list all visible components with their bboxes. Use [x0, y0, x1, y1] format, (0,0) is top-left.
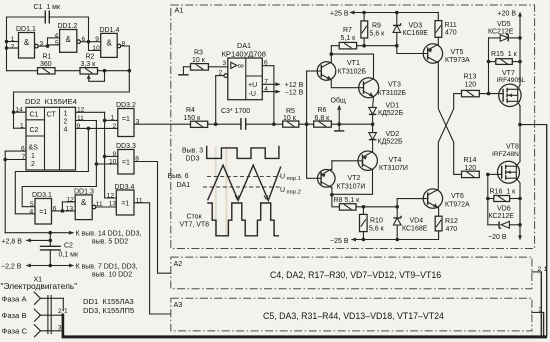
- junction VD5: [518, 36, 522, 40]
- svg-text:360: 360: [40, 61, 52, 68]
- svg-text:пор.2: пор.2: [287, 190, 301, 196]
- svg-text:10: 10: [92, 45, 100, 52]
- zener VD6: [499, 221, 509, 228]
- svg-text:КТ972А: КТ972А: [445, 201, 470, 208]
- wire DD1.4 pin10: [89, 42, 101, 51]
- wire DD3.2 out to R4: [134, 123, 191, 125]
- wire VT4 collector: [332, 170, 373, 195]
- logic gate DD1.2: [60, 30, 81, 53]
- svg-text:С3* 1700: С3* 1700: [221, 108, 250, 115]
- wire DD2 out 9 to DD3.2 pin2: [76, 127, 118, 129]
- wire phase A down: [62, 298, 64, 310]
- wire R15 left: [489, 61, 496, 63]
- wire R6 to diode node: [331, 123, 372, 125]
- junction output node: [518, 123, 522, 127]
- svg-text:1: 1: [20, 123, 24, 130]
- svg-text:&: &: [81, 198, 87, 207]
- svg-text:VT7: VT7: [502, 70, 515, 77]
- junction pin9 branch: [87, 127, 91, 131]
- svg-text:0,1 мк: 0,1 мк: [59, 252, 79, 259]
- wire VD6 left: [488, 224, 499, 226]
- svg-text:VT5: VT5: [451, 49, 464, 56]
- svg-text:−20 В: −20 В: [488, 234, 507, 241]
- ground R3: [178, 67, 189, 75]
- svg-text:КС168Е: КС168Е: [403, 30, 429, 37]
- junction R8-R10: [362, 205, 366, 209]
- svg-text:C4, DA2, R17–R30, VD7–VD12, VT: C4, DA2, R17–R30, VD7–VD12, VT9–VT16: [270, 270, 441, 280]
- waveform drain VT7 VT8: [207, 203, 279, 236]
- wire VD5 left vertical: [488, 38, 490, 94]
- svg-text:3: 3: [223, 60, 227, 67]
- wire phase A: [41, 297, 64, 299]
- svg-text:C1 1 мк: C1 1 мк: [34, 4, 61, 11]
- connector X1 contact A: [34, 292, 40, 304]
- junction to DD3.3 pin9: [103, 155, 107, 159]
- resistor R4: [191, 121, 208, 127]
- svg-text:КТ3102Б: КТ3102Б: [338, 69, 367, 76]
- wire R13 to VT6 collector (cross): [438, 94, 461, 190]
- svg-text:IRFZ48N: IRFZ48N: [492, 151, 519, 158]
- svg-text:4: 4: [30, 208, 34, 215]
- svg-text:R6: R6: [318, 107, 327, 114]
- wire DD2 pin6: [5, 150, 26, 152]
- wire VT4 base: [332, 160, 362, 162]
- svg-text:1: 1: [111, 115, 115, 122]
- svg-text:470: 470: [446, 226, 458, 233]
- svg-text:VT7, VT8: VT7, VT8: [180, 221, 210, 228]
- svg-text:выв. 10 DD2: выв. 10 DD2: [92, 272, 132, 279]
- wire VD4 bottom: [396, 225, 398, 240]
- wire VD2 to VT4 emitter: [372, 140, 374, 152]
- svg-text:К выв. 14 DD1, DD3,: К выв. 14 DD1, DD3,: [76, 231, 142, 238]
- svg-text:DD1.2: DD1.2: [58, 23, 78, 30]
- svg-text:VD6: VD6: [497, 206, 511, 213]
- wire osc output to DD2 clock: [14, 71, 130, 129]
- svg-text:CT: CT: [47, 112, 57, 119]
- svg-text:R15 1 к: R15 1 к: [491, 51, 518, 58]
- wire R8 node to VT6 base: [364, 206, 398, 208]
- resistor R11: [435, 21, 442, 38]
- wire DD1.1 pin2: [7, 47, 19, 49]
- svg-text:R14: R14: [464, 157, 477, 164]
- junction R10 rail: [362, 238, 366, 242]
- wire left rail: [6, 17, 8, 71]
- junction VD6 right: [518, 223, 522, 227]
- resistor R10: [360, 214, 368, 231]
- wire pin2 to R4-C3 node: [215, 76, 217, 125]
- junction inverting input node: [214, 122, 218, 126]
- connector X1 body bars: [48, 296, 51, 334]
- svg-text:+25 В: +25 В: [330, 11, 349, 18]
- wire DD1.4 output pin8: [121, 46, 130, 71]
- wire A3 output stub: [532, 311, 544, 313]
- svg-text:КС212Е: КС212Е: [489, 213, 515, 220]
- svg-text:R1: R1: [43, 54, 52, 61]
- svg-text:VT3: VT3: [388, 82, 401, 89]
- svg-text:3,3 к: 3,3 к: [81, 61, 97, 68]
- wire C2 bottom: [49, 250, 51, 266]
- wire R9 bottom: [363, 38, 365, 46]
- resistor R9: [361, 21, 368, 38]
- svg-text:R11: R11: [445, 22, 457, 29]
- wire VT2 collector to R8: [331, 187, 339, 207]
- wire thick bundle bottom: [62, 335, 547, 338]
- junction DD2 pin14: [12, 110, 16, 114]
- zener VD4: [393, 216, 401, 225]
- svg-text:5,6 к: 5,6 к: [370, 31, 386, 38]
- wire R5 to R6: [299, 123, 314, 125]
- wire DD2 pin14: [14, 111, 27, 113]
- wire -25V rail: [352, 231, 439, 240]
- svg-text:∞: ∞: [238, 61, 244, 71]
- wire thick bundle vertical: [62, 314, 65, 337]
- junction gate node: [487, 92, 491, 96]
- junction pin8 to R rail: [128, 69, 132, 73]
- svg-text:+U: +U: [248, 82, 257, 89]
- svg-text:13: 13: [66, 205, 74, 212]
- svg-text:=1: =1: [39, 209, 47, 216]
- ground common: [334, 124, 344, 131]
- svg-text:4: 4: [64, 127, 68, 134]
- svg-text:6: 6: [21, 145, 25, 152]
- svg-text:U: U: [280, 173, 285, 180]
- junction pin3 node: [46, 44, 50, 48]
- wire -12V supply: [262, 91, 279, 93]
- wire R1 to R2: [55, 70, 80, 72]
- wire VT6 base node vertical: [396, 199, 398, 218]
- svg-text:КТ3107И: КТ3107И: [379, 165, 408, 172]
- wire DD3.2 pin1: [105, 119, 118, 121]
- svg-text:VT6: VT6: [451, 193, 464, 200]
- wire 2 vertical: [540, 272, 542, 337]
- junction VD3-R7: [395, 44, 399, 48]
- wire +2.8V distribution: [5, 232, 73, 234]
- block A3 border: [171, 298, 532, 331]
- wire DD2 out 12: [76, 111, 105, 113]
- capacitor C1: [45, 11, 49, 24]
- variable resistor R2: [80, 68, 98, 74]
- svg-text:2: 2: [113, 123, 117, 130]
- svg-text:+12 В: +12 В: [285, 82, 304, 89]
- wire to VT5 base: [397, 46, 428, 54]
- wire VD6 right: [509, 224, 520, 226]
- junction pin1 rail: [5, 40, 9, 44]
- wire R3 to pin3: [208, 66, 227, 68]
- wire rail to R1: [7, 70, 38, 72]
- capacitor C2: [40, 246, 61, 250]
- svg-text:DD2 К155ИЕ4: DD2 К155ИЕ4: [25, 97, 78, 106]
- threshold dashed line Upor1: [207, 176, 280, 178]
- svg-text:2: 2: [64, 119, 68, 126]
- wire VT6 base: [397, 198, 428, 200]
- wire VD1 to VD2: [372, 114, 374, 132]
- diode VD1: [369, 107, 377, 114]
- wire R7 to VD3 node: [357, 45, 397, 47]
- svg-text:DD3, К155ЛП5: DD3, К155ЛП5: [83, 306, 134, 315]
- wire VT1 collector: [330, 54, 332, 62]
- svg-text:DD3.2: DD3.2: [116, 102, 136, 109]
- svg-text:DD1.4: DD1.4: [100, 27, 120, 34]
- wire VD5 anode: [489, 37, 501, 39]
- svg-text:C2: C2: [30, 127, 39, 134]
- resistor R7: [339, 42, 356, 49]
- resistor R15: [496, 59, 513, 65]
- svg-text:DD1.3: DD1.3: [74, 189, 94, 196]
- wire bus pin11 vertical: [22, 121, 96, 207]
- svg-text:КР140УД708: КР140УД708: [222, 49, 266, 58]
- svg-text:2: 2: [58, 308, 62, 315]
- junction -2.2 node: [49, 264, 53, 268]
- wire VT8 gate: [488, 173, 502, 175]
- transistor VT1: [317, 62, 336, 81]
- waveform square DD3 pin3: [207, 146, 279, 159]
- xor gate DD3.1: [35, 199, 52, 225]
- wire DD3.3 pin10: [96, 163, 117, 165]
- junction pin6 node: [87, 40, 91, 44]
- junction R15 right: [518, 60, 522, 64]
- wire to C2: [49, 233, 51, 247]
- wire C3 to R5: [246, 123, 283, 125]
- svg-text:К выв. 7 DD1, DD3,: К выв. 7 DD1, DD3,: [76, 263, 138, 270]
- resistor R1: [38, 68, 56, 74]
- wire DD3.3 pin9: [105, 155, 118, 157]
- junction R16 right: [518, 197, 522, 201]
- svg-text:КТ973А: КТ973А: [445, 57, 470, 64]
- svg-text:R8 5,1 к: R8 5,1 к: [334, 197, 361, 204]
- op-amp DA1: [224, 58, 262, 100]
- svg-text:=1: =1: [122, 160, 130, 167]
- wire C1 left: [7, 16, 46, 18]
- wire pin6 output: [262, 66, 274, 125]
- wire bus pin12 vertical: [105, 112, 117, 198]
- wire R7 left to collectors: [330, 46, 332, 54]
- wire VD3 bottom: [396, 32, 398, 45]
- svg-text:пор.1: пор.1: [287, 176, 301, 182]
- svg-text:10 к: 10 к: [283, 115, 297, 122]
- wire DD1.1 pin1: [7, 41, 19, 43]
- threshold dashed line Upor2: [203, 186, 280, 188]
- wire VT6 emitter to R12: [438, 208, 440, 217]
- svg-text:&: &: [66, 35, 72, 44]
- wire phase C: [41, 330, 64, 332]
- wire VT7 drain down: [518, 101, 520, 106]
- wire 1 vertical: [546, 125, 548, 337]
- svg-text:R4: R4: [186, 107, 195, 114]
- svg-text:VT8: VT8: [506, 144, 519, 151]
- wire pin2: [216, 75, 224, 77]
- wire C1 right to DD1.4 inputs: [49, 17, 88, 42]
- junction VD3 top: [395, 11, 399, 15]
- wire R10 top: [362, 207, 364, 215]
- wire R10 bottom: [362, 232, 364, 240]
- transistor VT6: [423, 189, 442, 208]
- svg-text:А1: А1: [175, 6, 184, 15]
- wire A2 output stub: [532, 271, 541, 273]
- svg-text:А3: А3: [174, 300, 183, 309]
- wire R4 to C3: [208, 123, 241, 125]
- resistor R8: [339, 204, 356, 210]
- junction R9 bottom: [362, 44, 366, 48]
- svg-text:VT1: VT1: [347, 60, 360, 67]
- svg-text:"Электродвигатель": "Электродвигатель": [1, 281, 78, 291]
- junction +2.8 node: [49, 231, 53, 235]
- svg-text:&: &: [106, 39, 112, 48]
- wire DD1.4 pin9: [89, 41, 101, 43]
- nand gate DD1.3: [75, 195, 96, 220]
- svg-text:VT2: VT2: [348, 175, 361, 182]
- svg-text:1: 1: [31, 153, 35, 160]
- svg-text:R5: R5: [286, 108, 295, 115]
- svg-text:9: 9: [95, 36, 99, 43]
- svg-text:6,8 к: 6,8 к: [315, 115, 331, 122]
- junction C2 top: [49, 239, 53, 243]
- resistor R6: [314, 121, 332, 127]
- marker arrow 1: [235, 196, 239, 200]
- junction DD3.1 out: [61, 209, 65, 213]
- junction Obshch: [337, 122, 341, 126]
- junction R15 left: [487, 60, 491, 64]
- R2 wiper arrow: [87, 71, 105, 82]
- wire R16 left: [488, 198, 494, 200]
- wire DD1.2 pin4: [48, 37, 60, 39]
- svg-text:7: 7: [22, 154, 26, 161]
- svg-text:R10: R10: [370, 218, 383, 225]
- wire comparator input vertical: [306, 71, 308, 178]
- svg-text:4: 4: [55, 32, 59, 39]
- wire R8 right: [356, 206, 364, 208]
- svg-text:−2,2 В: −2,2 В: [1, 263, 22, 270]
- svg-text:1: 1: [64, 111, 68, 118]
- svg-text:2: 2: [11, 43, 15, 50]
- svg-text:120: 120: [465, 165, 477, 172]
- transistor VT3: [359, 78, 379, 98]
- wire R13 to gate: [479, 93, 488, 95]
- junction to DD3.2 pin1: [103, 119, 107, 123]
- wire R11 top: [437, 13, 439, 21]
- wire VT4 emitter join: [372, 150, 374, 153]
- wire +20 rail down: [519, 38, 521, 85]
- resistor R13: [462, 90, 480, 96]
- svg-text:VD4: VD4: [410, 218, 424, 225]
- svg-text:12: 12: [67, 196, 75, 203]
- svg-text:1: 1: [11, 36, 15, 43]
- svg-text:5,1 к: 5,1 к: [341, 35, 357, 42]
- marker arrow 2: [264, 196, 268, 200]
- junction VT6 base node: [395, 205, 399, 209]
- svg-text:R9: R9: [372, 23, 381, 30]
- svg-text:DD3.1: DD3.1: [32, 192, 52, 199]
- wire DD2 out 11: [76, 120, 97, 122]
- svg-text:Выв. 6: Выв. 6: [168, 173, 189, 180]
- xor gate DD3.4: [116, 190, 134, 215]
- svg-text:−12 В: −12 В: [285, 90, 304, 97]
- wire +12V supply: [262, 83, 279, 85]
- svg-text:U: U: [280, 187, 285, 194]
- svg-text:А2: А2: [174, 259, 183, 268]
- junction VT2-VT4 collectors: [330, 193, 334, 197]
- wire VD5 cathode: [508, 37, 520, 39]
- svg-text:КТ3107И: КТ3107И: [337, 183, 366, 190]
- wire +2.8V label arrow: [27, 239, 51, 241]
- wire VT2 base: [307, 177, 321, 179]
- transistor VT5: [423, 44, 442, 63]
- svg-text:470: 470: [445, 30, 457, 37]
- svg-text:R7: R7: [343, 27, 352, 34]
- resistor R3: [191, 64, 209, 71]
- svg-text:120: 120: [465, 82, 477, 89]
- svg-text:Выв. 3: Выв. 3: [182, 148, 203, 155]
- svg-text:R3: R3: [194, 50, 203, 57]
- common terminal arrow Obshch: [338, 108, 340, 124]
- wire bus pin9 vertical: [15, 128, 88, 213]
- svg-text:C1: C1: [30, 112, 39, 119]
- wire VT3 emitter: [372, 97, 375, 108]
- junction comparator input: [305, 122, 309, 126]
- wire DD2 pin1: [14, 127, 27, 129]
- timing shade bars: [215, 146, 228, 236]
- svg-text:Общ: Общ: [331, 97, 346, 105]
- wire VT2 emitter to VT4 base: [330, 161, 333, 170]
- wire VD3 top: [396, 13, 398, 26]
- junction R2 wiper: [103, 69, 107, 73]
- svg-text:10: 10: [109, 159, 117, 166]
- svg-text:5: 5: [30, 201, 34, 208]
- svg-text:DD3.3: DD3.3: [116, 143, 136, 150]
- logic gate DD1.4: [101, 33, 121, 57]
- svg-text:КД522Б: КД522Б: [378, 110, 403, 117]
- wire VT7 source top: [518, 85, 520, 89]
- resistor R12: [435, 216, 442, 231]
- wire VT8 drain top: [516, 162, 520, 167]
- logic gate DD1.1: [19, 33, 39, 59]
- wire R11 bottom: [437, 37, 439, 44]
- wire to R7: [331, 45, 339, 47]
- wire VT8 gate-source left vertical: [487, 174, 489, 224]
- svg-text:КД522Б: КД522Б: [378, 139, 403, 146]
- wire DD2 pin7: [5, 159, 26, 161]
- svg-text:IRF4905L: IRF4905L: [497, 77, 526, 84]
- junction to DD3.3 pin10: [95, 162, 99, 166]
- junction VT8 gate node: [486, 173, 490, 177]
- wire R9 top: [363, 13, 365, 21]
- svg-text:DD1.1: DD1.1: [16, 26, 36, 33]
- block A2 border: [171, 257, 532, 289]
- waveform triangle DA1 pin6: [208, 165, 281, 200]
- junction VD4 rail: [395, 238, 399, 242]
- svg-text:Фаза В: Фаза В: [2, 311, 27, 320]
- junction VD1-VD2: [371, 122, 375, 126]
- svg-text:DD3: DD3: [186, 156, 200, 163]
- wire -2.2V line: [27, 265, 73, 267]
- xor gate DD3.2: [118, 109, 134, 137]
- block A1 border: [171, 5, 535, 249]
- xor gate DD3.3: [118, 150, 134, 175]
- svg-text:=1: =1: [122, 116, 130, 123]
- svg-text:+2,8 В: +2,8 В: [2, 238, 23, 245]
- svg-text:КТ3102Б: КТ3102Б: [378, 90, 407, 97]
- svg-text:9: 9: [113, 151, 117, 158]
- capacitor C3: [241, 118, 246, 130]
- wire R15 right: [512, 61, 520, 63]
- transistor VT4: [358, 151, 377, 170]
- svg-text:3: 3: [58, 324, 62, 331]
- svg-text:DD1 К155ЛА3: DD1 К155ЛА3: [83, 297, 134, 306]
- svg-text:12: 12: [107, 192, 115, 199]
- wire R2 to pin8 node: [98, 70, 130, 72]
- svg-text:Сток: Сток: [187, 214, 203, 221]
- svg-text:−25 В: −25 В: [330, 238, 349, 245]
- wire R16 right: [510, 198, 520, 200]
